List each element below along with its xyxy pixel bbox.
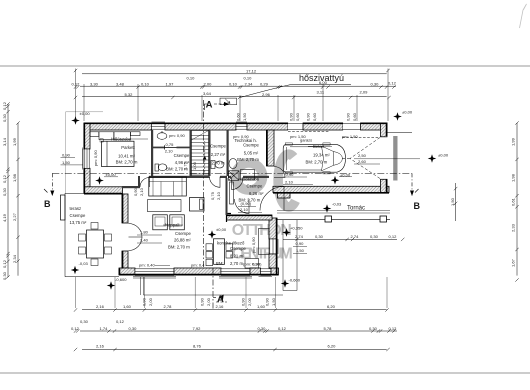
svg-text:0,12: 0,12 (388, 81, 397, 86)
svg-text:pm: 0,4: pm: 0,4 (191, 263, 205, 268)
svg-text:pm: 0,90: pm: 0,90 (251, 237, 256, 253)
svg-text:2,10: 2,10 (165, 148, 174, 153)
top wall segment 3 (247, 123, 288, 130)
svg-text:1,99: 1,99 (12, 137, 17, 146)
svg-text:Csempe: Csempe (174, 153, 190, 158)
svg-text:1,50: 1,50 (450, 197, 455, 206)
garage east wall top piece (381, 123, 388, 137)
terrace table (87, 230, 104, 258)
armchair 1 (153, 215, 168, 230)
svg-text:0,90: 0,90 (62, 152, 71, 157)
svg-text:0,90: 0,90 (306, 112, 311, 121)
svg-text:1,98: 1,98 (12, 173, 17, 182)
armchair 2 (170, 215, 185, 230)
svg-text:2,34: 2,34 (245, 82, 254, 87)
garage west wall (267, 130, 275, 166)
partition bedroom east (151, 130, 153, 176)
top wall segment 4 (303, 123, 343, 130)
section line A vertical (204, 100, 214, 310)
svg-text:pm: 0,40: pm: 0,40 (139, 263, 155, 268)
svg-text:19,34 m²: 19,34 m² (313, 152, 330, 157)
door arc bedroom (140, 178, 150, 188)
svg-text:2,70 m: 2,70 m (212, 161, 225, 166)
svg-text:2,74: 2,74 (351, 234, 360, 239)
svg-text:±0,00: ±0,00 (80, 111, 91, 116)
svg-text:BM:: BM: (216, 261, 224, 266)
window tech top (236, 122, 247, 129)
terrace extension corner (66, 111, 103, 113)
svg-text:6,20: 6,20 (328, 344, 337, 349)
svg-text:2,16: 2,16 (96, 344, 105, 349)
svg-text:2,09: 2,09 (360, 90, 369, 95)
svg-text:2,16: 2,16 (96, 304, 105, 309)
bottom window kitchen 2 (261, 269, 272, 276)
svg-text:0,60: 0,60 (236, 112, 241, 121)
rotated door pair labels interior (133, 142, 221, 200)
svg-text:Tornác: Tornác (347, 206, 365, 212)
top wall segment 1 (84, 123, 152, 130)
svg-text:3,64: 3,64 (203, 91, 212, 96)
svg-text:0,30: 0,30 (2, 187, 7, 196)
tornac floor edge (277, 219, 390, 221)
svg-text:garázs: garázs (300, 138, 312, 143)
dim labels right col rotated (511, 137, 516, 267)
partition tech south (228, 176, 231, 178)
section A marker top (205, 104, 208, 110)
svg-text:-0,03: -0,03 (332, 202, 342, 207)
svg-text:0,10: 0,10 (229, 82, 238, 87)
svg-text:26,88 m²: 26,88 m² (174, 238, 191, 243)
svg-text:0,90: 0,90 (142, 297, 147, 306)
kitchen east wall upper (269, 218, 277, 239)
svg-text:0,30: 0,30 (370, 234, 379, 239)
bottom wall segment 3 (250, 268, 261, 275)
svg-text:2,10: 2,10 (285, 180, 294, 185)
svg-text:0,12: 0,12 (389, 326, 398, 331)
terrace double door arcs (129, 224, 143, 238)
window bedroom left (83, 149, 89, 168)
dim col left outer (7, 104, 9, 277)
hall cabinet (230, 182, 234, 204)
partition south run bath-living (149, 176, 210, 178)
bedroom south exterior wall (84, 187, 123, 194)
svg-text:2,50: 2,50 (358, 153, 367, 158)
svg-text:Csempe: Csempe (243, 143, 259, 148)
pillar 2 (380, 216, 387, 222)
fence east (393, 136, 397, 181)
svg-text:pm: 1,50: pm: 1,50 (342, 134, 358, 139)
west wall lower bottom piece (122, 251, 128, 268)
watermark logo o (235, 154, 295, 207)
svg-text:1,98: 1,98 (511, 173, 516, 182)
svg-text:0,90: 0,90 (346, 112, 351, 121)
svg-text:Hálószoba: Hálószoba (111, 137, 132, 142)
svg-text:±0,00: ±0,00 (106, 172, 117, 177)
svg-text:1,60: 1,60 (123, 304, 132, 309)
garage south wall (273, 186, 389, 192)
svg-text:A: A (206, 99, 213, 110)
svg-text:3,11: 3,11 (317, 90, 325, 95)
svg-text:1,74: 1,74 (100, 326, 109, 331)
path front steps (282, 220, 284, 291)
kitchen east window (270, 239, 278, 254)
svg-text:0,75: 0,75 (183, 161, 188, 170)
svg-text:Csempe: Csempe (210, 144, 226, 149)
extension lines top (75, 69, 77, 122)
svg-text:2,00: 2,00 (206, 297, 211, 306)
svg-text:6,26 m²: 6,26 m² (249, 191, 264, 196)
tv unit (190, 198, 205, 212)
svg-text:4,19: 4,19 (2, 213, 7, 222)
svg-text:1,50: 1,50 (296, 248, 305, 253)
svg-text:0,60: 0,60 (312, 112, 317, 121)
window sills bottom (83, 148, 273, 279)
door arc living-hall (210, 177, 221, 188)
svg-text:B: B (414, 201, 421, 211)
coffee table (148, 200, 182, 212)
garage high window 1 dashed (288, 123, 303, 131)
terrace outline (65, 193, 119, 276)
tornac corner wall piece (278, 193, 291, 199)
svg-text:2,10: 2,10 (240, 207, 249, 212)
svg-text:(0,90): (0,90) (241, 201, 252, 206)
kitchen chairs (206, 244, 213, 251)
rotated window pair labels top (236, 112, 358, 121)
svg-text:2,40: 2,40 (140, 238, 149, 243)
svg-text:±0,00: ±0,00 (438, 153, 449, 158)
door arc entrance big (260, 187, 284, 211)
kitchen east wall lower (269, 254, 277, 268)
dim row bottom C (80, 330, 397, 332)
svg-text:2,60: 2,60 (358, 159, 367, 164)
svg-text:2,96: 2,96 (262, 92, 271, 97)
dim row3 (82, 95, 387, 97)
svg-text:0,30: 0,30 (129, 326, 138, 331)
svg-text:3,48: 3,48 (116, 82, 125, 87)
svg-text:BM: 2,70 m: BM: 2,70 m (116, 160, 138, 165)
svg-text:3,14: 3,14 (2, 137, 7, 146)
kitchen counter east (259, 229, 270, 255)
svg-text:-0,03: -0,03 (79, 261, 89, 266)
dim row bottom B (82, 309, 387, 311)
garage east wall bottom piece (381, 179, 388, 192)
svg-text:0,30: 0,30 (315, 234, 324, 239)
svg-text:0,90: 0,90 (296, 241, 305, 246)
svg-text:1,67: 1,67 (511, 258, 516, 267)
dim row1 (82, 73, 387, 75)
svg-text:6,00: 6,00 (319, 80, 328, 85)
west wall lower upper piece (122, 194, 128, 223)
svg-text:0,10: 0,10 (141, 82, 150, 87)
svg-text:0,10: 0,10 (244, 76, 253, 81)
svg-text:0,12: 0,12 (71, 326, 80, 331)
svg-text:B: B (44, 199, 51, 209)
svg-text:2,10: 2,10 (139, 187, 144, 196)
svg-text:Csempe: Csempe (247, 184, 263, 189)
bottom window kitchen 1 (221, 269, 250, 276)
section B marker left (51, 173, 53, 196)
svg-text:pm: 0,90: pm: 0,90 (169, 133, 185, 138)
svg-text:Csempe: Csempe (70, 213, 86, 218)
heat pump unit (220, 98, 237, 105)
tech washer (229, 171, 240, 181)
stairs (192, 131, 209, 176)
bath sink (157, 133, 167, 140)
top wall segment 2 (165, 123, 236, 130)
dim col right (516, 123, 518, 276)
garage door swing dashed X (341, 138, 380, 179)
svg-text:2,78: 2,78 (164, 304, 173, 309)
svg-text:0,30: 0,30 (369, 326, 378, 331)
top wall segment 5 (361, 123, 388, 130)
svg-text:2,27: 2,27 (12, 212, 17, 221)
svg-text:2,70 m: 2,70 m (230, 261, 243, 266)
svg-text:6,20: 6,20 (327, 304, 336, 309)
kitchen counter south (245, 259, 259, 269)
svg-text:1,50: 1,50 (242, 112, 247, 121)
svg-text:Csempe: Csempe (230, 246, 246, 251)
dim labels left col outer rotated (2, 101, 7, 280)
path by living door (140, 277, 142, 295)
svg-text:0,61: 0,61 (511, 197, 516, 206)
corner pen mark top right (520, 4, 527, 28)
bed (102, 141, 135, 166)
svg-text:0,12: 0,12 (389, 234, 398, 239)
svg-text:0,90: 0,90 (133, 187, 138, 196)
section A marker bottom (213, 297, 216, 299)
svg-text:1,00: 1,00 (192, 161, 197, 170)
svg-text:0,12: 0,12 (2, 174, 7, 183)
svg-text:2,27 m²: 2,27 m² (211, 152, 226, 157)
svg-text:0,29: 0,29 (260, 82, 269, 87)
svg-text:13,75 m²: 13,75 m² (70, 220, 87, 225)
lines right of garage (387, 132, 412, 134)
svg-text:1,50: 1,50 (62, 160, 71, 165)
kitchen table (214, 239, 225, 264)
svg-text:±0,00: ±0,00 (216, 227, 227, 232)
svg-text:2,00: 2,00 (148, 297, 153, 306)
svg-text:8,76: 8,76 (193, 344, 202, 349)
svg-text:0,75: 0,75 (210, 191, 215, 200)
wc toilet (211, 161, 215, 169)
chairs (91, 223, 98, 230)
dim labels left col inner rotated (12, 137, 17, 263)
svg-text:0,12: 0,12 (2, 259, 7, 268)
svg-text:0,60: 0,60 (295, 112, 300, 121)
svg-text:0,90: 0,90 (200, 297, 205, 306)
svg-text:2,74: 2,74 (295, 234, 304, 239)
svg-text:2,00: 2,00 (204, 82, 213, 87)
terrace bench (61, 195, 66, 220)
window bath top (152, 122, 166, 129)
garage high window 2 dashed (343, 123, 361, 131)
svg-text:BM: 2,70 m: BM: 2,70 m (306, 159, 328, 164)
door arc hall south (234, 199, 249, 214)
svg-text:0,60: 0,60 (352, 112, 357, 121)
dim row2 (80, 85, 396, 87)
svg-text:±0,00: ±0,00 (402, 110, 413, 115)
partition bedroom south (122, 186, 140, 188)
svg-text:0,12: 0,12 (116, 319, 125, 324)
svg-text:0,30: 0,30 (80, 319, 89, 324)
extension lines bottom (75, 277, 77, 308)
svg-text:0,90: 0,90 (286, 172, 295, 177)
hall kitchen wall (227, 215, 273, 220)
svg-text:0,90: 0,90 (241, 297, 246, 306)
svg-text:10,41 m²: 10,41 m² (118, 153, 135, 158)
door arc garage-hall (274, 167, 285, 178)
svg-text:1,80: 1,80 (140, 230, 149, 235)
svg-text:0,90: 0,90 (289, 112, 294, 121)
svg-text:Parkett: Parkett (121, 145, 135, 150)
partition hall west (226, 178, 228, 215)
svg-text:7,92: 7,92 (193, 326, 202, 331)
svg-text:0,30: 0,30 (2, 113, 7, 122)
svg-text:-0,600: -0,600 (115, 277, 127, 282)
rotated window pair labels bottom (142, 297, 277, 306)
door leaf bath anteroom (165, 145, 177, 149)
dim tornac row (283, 238, 397, 240)
svg-text:0,10: 0,10 (187, 76, 196, 81)
svg-text:0,12: 0,12 (2, 101, 7, 110)
svg-text:0,30: 0,30 (2, 271, 7, 280)
svg-text:0,90: 0,90 (265, 297, 270, 306)
level stars (71, 116, 80, 125)
bedroom wardrobe row (90, 132, 99, 137)
page top rule (0, 65, 530, 67)
pillar 1 (325, 216, 332, 222)
svg-text:BM: 2,70 m: BM: 2,70 m (237, 157, 259, 162)
svg-text:0,12: 0,12 (72, 82, 81, 87)
page bottom rule (0, 372, 530, 374)
svg-text:Csempe: Csempe (175, 231, 191, 236)
svg-text:0,90: 0,90 (252, 262, 261, 267)
living sofa (149, 177, 187, 196)
car (283, 143, 345, 174)
svg-text:0,75: 0,75 (166, 142, 175, 147)
svg-text:2,34: 2,34 (12, 254, 17, 263)
heavy outer wall edges (84, 123, 389, 275)
door arc tech (232, 178, 244, 190)
bath toilet (155, 164, 159, 171)
svg-text:pm: 0,90: pm: 0,90 (93, 150, 98, 166)
svg-text:0,30: 0,30 (371, 82, 380, 87)
svg-text:17,12: 17,12 (246, 68, 257, 73)
svg-text:2,33: 2,33 (511, 223, 516, 232)
partition bath stairs (190, 130, 192, 176)
svg-text:+0,350: +0,350 (290, 226, 303, 231)
svg-text:BM: 2,70 m: BM: 2,70 m (168, 245, 190, 250)
bottom window living (135, 269, 174, 276)
svg-text:1,97: 1,97 (166, 82, 175, 87)
svg-text:1,50: 1,50 (271, 297, 276, 306)
svg-text:0,30: 0,30 (258, 326, 267, 331)
bottom wall SE corner (271, 268, 279, 275)
bottom wall segment 2 (174, 268, 221, 275)
svg-text:8,21 m²: 8,21 m² (230, 254, 245, 259)
dim col left inner (17, 123, 19, 276)
bottom wall segment 1 (119, 268, 135, 275)
section B marker right (411, 173, 413, 196)
tech boiler (229, 159, 237, 169)
svg-text:-0,600: -0,600 (289, 278, 301, 283)
partition wc tech (227, 130, 229, 176)
svg-text:0,12: 0,12 (278, 326, 287, 331)
svg-text:2,00: 2,00 (247, 297, 252, 306)
svg-text:2,10: 2,10 (216, 191, 221, 200)
left wall upper (84, 123, 90, 149)
svg-text:konyha étkező: konyha étkező (217, 241, 245, 246)
dim row bottom D (82, 349, 387, 351)
dim right inner (455, 183, 457, 221)
svg-text:terasz: terasz (70, 206, 82, 211)
svg-text:5,05 m²: 5,05 m² (244, 151, 259, 156)
tech counter (241, 170, 255, 181)
svg-text:5,78: 5,78 (324, 326, 333, 331)
svg-text:3,30: 3,30 (90, 82, 99, 87)
connector bedroom door (138, 176, 140, 187)
partition stairs wc (209, 130, 211, 176)
section line B horizontal (52, 172, 412, 174)
svg-text:1,99: 1,99 (511, 137, 516, 146)
svg-text:2,16: 2,16 (216, 304, 225, 309)
svg-text:5,32: 5,32 (125, 92, 134, 97)
